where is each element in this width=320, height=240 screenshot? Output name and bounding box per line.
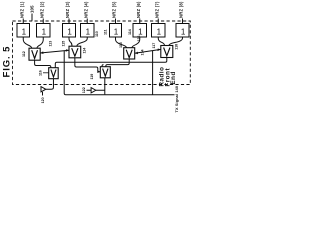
flip-flop FF2 — [37, 24, 51, 38]
svg-text:116: 116 — [39, 70, 43, 76]
mux C — [124, 48, 135, 59]
wire clock riser from TX line — [152, 51, 154, 95]
wire label8 to FF8 — [182, 19, 184, 24]
wire FF1 to mux A — [23, 37, 32, 48]
svg-text:TX Signal 140: TX Signal 140 — [175, 86, 179, 113]
mux F — [100, 67, 110, 78]
svg-text:114: 114 — [128, 29, 132, 35]
svg-text:1: 1 — [114, 28, 119, 37]
wire FF6 to mux C — [132, 37, 140, 48]
svg-text:117: 117 — [152, 43, 156, 49]
svg-text:120: 120 — [41, 97, 45, 103]
svg-text:1: 1 — [181, 28, 186, 37]
wire FF7 to mux D — [158, 37, 164, 46]
svg-text:113: 113 — [49, 41, 53, 47]
wire FF5 to mux C — [116, 37, 127, 48]
flip-flop FF6 — [133, 24, 147, 38]
svg-text:105: 105 — [30, 5, 35, 13]
svg-text:111: 111 — [103, 29, 107, 35]
wire mux B output to mux F — [75, 58, 100, 72]
mux D — [161, 46, 173, 58]
wire FF8 to mux D — [169, 37, 183, 46]
wire mux D output long line to mux E — [55, 58, 167, 68]
wire label1 to FF1 — [22, 19, 24, 24]
svg-text:1: 1 — [138, 28, 143, 37]
wire label2 to FF2 — [42, 19, 44, 24]
wire select riser down to TX line — [64, 51, 105, 95]
wire label4 to FF4 — [86, 19, 88, 24]
svg-text:1: 1 — [22, 28, 27, 37]
wire mux F output down to TX line — [105, 78, 175, 95]
svg-text:NRZ (7): NRZ (7) — [154, 1, 159, 18]
flip-flop FF4 — [81, 24, 95, 38]
wire T2 output to F output junction — [96, 89, 105, 91]
svg-text:NRZ (5): NRZ (5) — [112, 1, 117, 18]
flip-flop FF3 — [63, 24, 76, 38]
mux B — [69, 46, 81, 58]
wire mux E bottom to buffer T1 — [46, 79, 54, 90]
svg-text:119: 119 — [90, 74, 94, 80]
arrowhead into A right — [40, 51, 43, 54]
svg-text:NRZ (3): NRZ (3) — [65, 1, 70, 18]
svg-text:115: 115 — [119, 42, 123, 48]
svg-text:NRZ (6): NRZ (6) — [136, 1, 141, 18]
wire label6 to FF6 — [139, 19, 141, 24]
svg-text:1: 1 — [86, 28, 91, 37]
svg-text:FIG. 5: FIG. 5 — [2, 46, 13, 78]
flip-flop FF1 — [17, 24, 30, 38]
mux A (2:1 selector) — [29, 48, 40, 60]
svg-text:NRZ (8): NRZ (8) — [179, 1, 184, 18]
arrowhead into C right — [135, 52, 138, 55]
wire mux A output to mux E — [35, 60, 51, 67]
wire stub into F top-left — [102, 65, 104, 67]
wire FF4 to mux B — [77, 37, 87, 46]
svg-text:126: 126 — [137, 36, 141, 42]
wire label5 to FF5 — [115, 19, 117, 24]
svg-text:NRZ (4): NRZ (4) — [83, 1, 88, 18]
svg-text:118: 118 — [175, 44, 179, 50]
wire label3 to FF3 — [68, 19, 70, 24]
svg-text:112: 112 — [22, 51, 26, 57]
buffer T1 — [41, 87, 46, 92]
wire FF3 to mux B — [69, 37, 72, 46]
wire FF2 to mux A — [37, 37, 43, 48]
wire label7 to FF7 — [157, 19, 159, 24]
wire select line between mux A and mux B — [40, 50, 69, 53]
svg-text:115: 115 — [62, 41, 66, 47]
buffer T2 — [91, 88, 96, 93]
mux E — [49, 68, 59, 79]
arrowhead into D left — [158, 49, 161, 52]
wire T2 input stub — [87, 89, 92, 91]
svg-text:114: 114 — [83, 48, 87, 54]
svg-text:110: 110 — [95, 31, 99, 37]
arrowhead into B left — [66, 49, 69, 52]
wire 105 leader — [31, 14, 33, 21]
svg-text:122: 122 — [82, 87, 86, 93]
arrowhead into F — [97, 70, 100, 73]
wire select line between mux C and mux D — [135, 49, 161, 53]
svg-text:End: End — [170, 71, 177, 84]
flip-flop FF8 — [176, 24, 189, 38]
svg-text:1: 1 — [42, 28, 47, 37]
svg-text:1: 1 — [67, 28, 72, 37]
svg-text:NRZ (2): NRZ (2) — [39, 1, 44, 18]
flip-flop FF7 — [152, 24, 166, 38]
svg-text:NRZ (1): NRZ (1) — [19, 1, 24, 18]
wire mux C output to mux F — [106, 59, 129, 67]
flip-flop FF5 — [110, 24, 122, 38]
dashed chip border 105 — [13, 21, 191, 85]
wire T1 input stub — [42, 92, 44, 96]
svg-text:1: 1 — [157, 28, 162, 37]
